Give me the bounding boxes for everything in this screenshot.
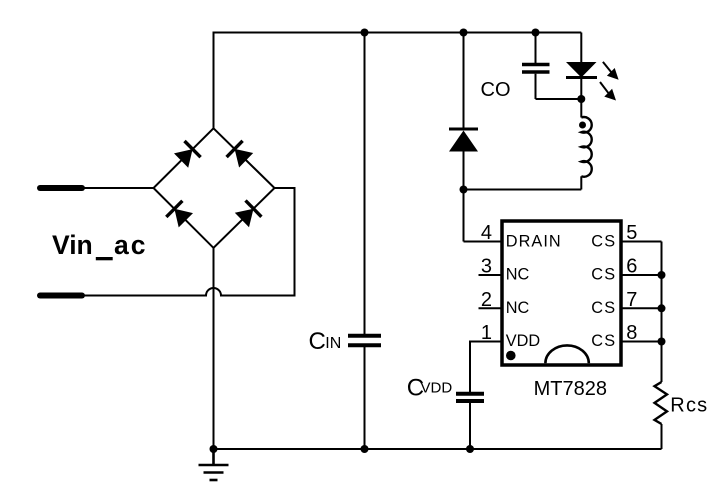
label Vin_ac xyxy=(52,230,147,260)
LED emission arrow 2 xyxy=(600,82,616,101)
svg-text:CS: CS xyxy=(591,233,616,251)
wire Rcs bottom xyxy=(661,424,663,449)
wire lower AC with hop over vertical xyxy=(82,188,295,296)
svg-text:NC: NC xyxy=(506,266,530,284)
node pin 6 junction xyxy=(658,271,666,279)
resistor Rcs xyxy=(655,382,668,424)
wire top rail xyxy=(214,33,582,129)
diode D2 top-right of bridge xyxy=(227,141,254,168)
LED emission arrow 1 xyxy=(603,62,619,80)
IC U1 MT7828 body xyxy=(502,221,621,365)
svg-text:4: 4 xyxy=(481,222,492,244)
svg-text:2: 2 xyxy=(481,289,492,311)
svg-text:8: 8 xyxy=(626,322,637,344)
wire bridge bottom to ground xyxy=(213,248,215,449)
ground xyxy=(199,449,229,480)
capacitor CIN xyxy=(348,33,381,450)
svg-text:CS: CS xyxy=(591,266,616,284)
wire pin 1 VDD xyxy=(470,342,502,393)
wire inductor bottom to diode xyxy=(464,189,582,191)
svg-text:3: 3 xyxy=(481,256,492,278)
svg-text:VDD: VDD xyxy=(421,380,453,397)
wire pin 4 DRAIN xyxy=(464,241,503,243)
inductor polarity dot xyxy=(579,122,586,129)
label CIN xyxy=(309,328,342,355)
svg-text:1: 1 xyxy=(481,322,492,344)
node CIN top junction xyxy=(361,29,369,37)
svg-text:CO: CO xyxy=(481,79,511,101)
node ground junction xyxy=(210,445,218,453)
svg-text:MT7828: MT7828 xyxy=(534,378,607,400)
svg-text:CS: CS xyxy=(591,332,616,350)
label CVDD xyxy=(407,375,453,402)
diode D4 bottom-right of bridge xyxy=(235,201,262,228)
bridge rectifier diamond xyxy=(154,128,275,248)
svg-text:NC: NC xyxy=(506,299,530,317)
pin 2 NC stub xyxy=(479,307,503,309)
U1 package notch xyxy=(545,345,588,363)
node CVDD bottom junction xyxy=(466,445,474,453)
node pin 7 junction xyxy=(658,304,666,312)
node CIN bottom junction xyxy=(361,445,369,453)
svg-text:C: C xyxy=(309,328,326,355)
svg-text:CS: CS xyxy=(591,299,616,317)
wire CS bus xyxy=(661,242,663,383)
node pin 8 junction xyxy=(658,338,666,346)
wire pin 6 CS xyxy=(621,274,662,276)
capacitor CVDD xyxy=(456,392,484,449)
diode D3 bottom-left of bridge xyxy=(166,201,193,228)
wire pin 8 CS xyxy=(621,341,662,343)
wire upper AC input to bridge xyxy=(82,187,154,189)
wire pin 7 CS xyxy=(621,307,662,309)
wire pin 5 CS xyxy=(621,241,662,243)
terminal lower AC input xyxy=(40,293,82,299)
capacitor CO xyxy=(522,33,581,100)
terminal upper AC input xyxy=(40,185,82,191)
node diode-inductor junction xyxy=(460,186,468,194)
inductor L1 xyxy=(581,99,591,190)
U1 pin-1 dot xyxy=(506,351,516,361)
svg-text:VDD: VDD xyxy=(506,332,540,350)
svg-text:IN: IN xyxy=(325,335,341,352)
svg-text:5: 5 xyxy=(626,222,637,244)
svg-text:Rcs: Rcs xyxy=(670,395,708,417)
svg-text:ac: ac xyxy=(114,230,147,260)
pin 3 NC stub xyxy=(479,274,503,276)
node LED-CO junction xyxy=(577,95,585,103)
node CO top junction xyxy=(532,29,540,37)
diode D1 top-left of bridge xyxy=(174,141,201,168)
svg-text:DRAIN: DRAIN xyxy=(506,233,562,251)
wire bottom rail xyxy=(214,448,662,450)
svg-text:7: 7 xyxy=(626,289,637,311)
LED D6 xyxy=(566,33,597,100)
node diode branch top junction xyxy=(460,29,468,37)
diode D5 freewheeling xyxy=(449,33,478,242)
svg-text:6: 6 xyxy=(626,256,637,278)
svg-text:Vin: Vin xyxy=(52,230,93,260)
